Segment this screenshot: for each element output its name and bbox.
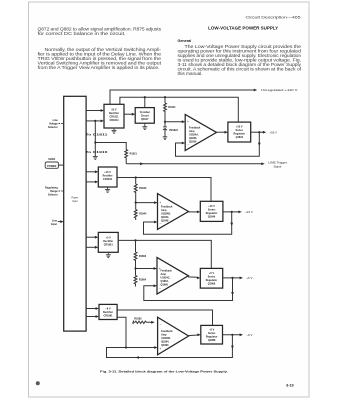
wire: -8 V rectifier lower output to + input junction xyxy=(117,317,126,347)
figure caption xyxy=(100,369,228,373)
svg-text:POWER: POWER xyxy=(47,165,57,168)
wire: LINE trigger signal xyxy=(126,162,265,165)
node: junction to R1921 branch xyxy=(94,141,96,143)
zener VR1822 xyxy=(163,122,179,137)
svg-text:Q1817: Q1817 xyxy=(141,118,149,121)
svg-text:Signal: Signal xyxy=(274,165,282,169)
svg-text:General: General xyxy=(178,39,192,43)
svg-text:+15 V: +15 V xyxy=(245,210,253,214)
svg-text:To C1910: To C1910 xyxy=(86,151,109,154)
label: Unregulated +110 V xyxy=(261,88,298,92)
svg-text:R1863: R1863 xyxy=(139,255,147,258)
svg-text:R1844: R1844 xyxy=(139,212,147,215)
node: R1821 bus junction xyxy=(164,96,166,98)
svg-text:R1843: R1843 xyxy=(139,187,147,190)
svg-text:S1801: S1801 xyxy=(48,158,56,161)
svg-text:VR1822: VR1822 xyxy=(169,129,179,132)
wire: +55 V feedback loop xyxy=(176,132,261,156)
wire: power input to +15 V rectifier (upper) xyxy=(86,170,98,173)
op-amp U1824B feedback amp +15 V xyxy=(158,194,189,230)
label: -8 V xyxy=(247,333,253,337)
node: R1863 tap junction xyxy=(134,239,136,241)
wire: divider junction to amp B + input xyxy=(136,201,158,204)
svg-text:LOW-VOLTAGE POWER SUPPLY: LOW-VOLTAGE POWER SUPPLY xyxy=(208,26,278,31)
svg-text:this manual.: this manual. xyxy=(178,71,203,76)
svg-text:Circuit Description—465: Circuit Description—465 xyxy=(246,16,301,20)
svg-text:Q1866: Q1866 xyxy=(161,284,169,287)
wire: branch to R1921 xyxy=(95,143,126,150)
svg-text:Selector: Selector xyxy=(48,126,58,129)
resistor R1921 xyxy=(125,150,138,164)
svg-text:Unregulated +110 V: Unregulated +110 V xyxy=(261,88,298,92)
crowbar circuit Q1817 xyxy=(135,108,154,124)
label: Regulating Range Selector xyxy=(45,187,58,197)
svg-text:+5 V: +5 V xyxy=(247,276,253,280)
wire: +15 V raw line to series regulator xyxy=(117,178,211,202)
wire: divider junction to amp C + input xyxy=(136,267,158,270)
label: Line Voltage Selector xyxy=(48,119,58,129)
wire: power input to +15 V rectifier (lower) xyxy=(86,181,98,184)
svg-text:Q1836: Q1836 xyxy=(189,140,197,143)
node: R1843 tap junction xyxy=(135,176,137,178)
ground under +15 V rectifier xyxy=(105,187,110,192)
+15 V rectifier CR1841 xyxy=(98,167,117,187)
svg-text:for correct DC balance in the: for correct DC balance in the circuit. xyxy=(38,31,126,36)
wire: power input to 55 V rectifier (upper) xyxy=(86,109,104,112)
node: +15 V output junction xyxy=(231,211,233,213)
svg-text:R1821: R1821 xyxy=(168,106,176,109)
svg-text:Input: Input xyxy=(72,200,78,203)
wire: +55 V output xyxy=(251,131,267,134)
page number 3-19 xyxy=(286,384,294,388)
wire: -8 V feedback loop xyxy=(107,335,234,359)
wire: amp A output to +55 V series regulator xyxy=(217,131,228,134)
wire: power input to +5 V rectifier (lower) xyxy=(86,246,98,249)
op-amp U1824C feedback amp +5 V xyxy=(157,258,188,295)
right column text xyxy=(178,16,303,77)
switch S1801 POWER xyxy=(45,158,58,168)
+5 V rectifier CR1861 xyxy=(98,232,118,252)
ground at tap bus bottom xyxy=(93,157,98,160)
ground under +5 V rectifier xyxy=(106,252,111,257)
ground under 55 V rectifier xyxy=(112,128,117,133)
node: junction on lower rectifier wire xyxy=(94,120,96,122)
label: +55 V xyxy=(270,130,278,134)
wire: power input to +5 V rectifier (upper) xyxy=(86,236,98,239)
resistor R1864 xyxy=(134,269,147,287)
55 V rectifier CR1811-CR1814 xyxy=(104,104,124,128)
svg-text:from the A Trigger View Amplif: from the A Trigger View Amplifier is app… xyxy=(38,65,160,70)
page footer mark xyxy=(36,381,40,385)
svg-text:Q1896: Q1896 xyxy=(161,344,169,347)
svg-text:R1864: R1864 xyxy=(139,278,147,281)
wire: power input to -8 V rectifier (lower) xyxy=(86,315,99,318)
svg-text:−: − xyxy=(159,286,161,290)
wire: amp C output to +5 V series regulator xyxy=(188,277,200,280)
node: R1821 / VR1822 junction xyxy=(164,121,166,123)
node: -8 V sense junction xyxy=(125,346,127,348)
wire: junction to amp A + input xyxy=(165,120,185,123)
svg-text:CR1881: CR1881 xyxy=(103,314,113,317)
op-amp U1824A feedback amp +55 V xyxy=(185,115,216,151)
svg-text:R1882: R1882 xyxy=(134,318,142,321)
svg-text:CR1814: CR1814 xyxy=(109,119,119,122)
ground under VR1822 xyxy=(163,137,168,140)
resistor R1863 xyxy=(134,240,147,268)
node: -8 V output junction xyxy=(231,334,233,336)
svg-text:−: − xyxy=(160,322,162,326)
node: crowbar bus junction xyxy=(144,96,146,98)
+15 V series regulator Q1846 xyxy=(200,201,223,221)
wire: line voltage selector to power input (dashed) xyxy=(59,123,64,125)
wire: tap bus below lower rectifier wire xyxy=(94,121,96,157)
label: Line input xyxy=(51,219,58,226)
svg-text:CR1861: CR1861 xyxy=(104,244,114,247)
label: +5 V xyxy=(247,276,253,280)
wire: POWER switch to power input xyxy=(58,164,63,166)
svg-text:+: + xyxy=(159,201,161,205)
wire: junction to amp D + input xyxy=(126,346,158,349)
svg-text:Q1868: Q1868 xyxy=(208,282,216,285)
svg-text:+: + xyxy=(159,347,161,351)
node: +5 V divider junction xyxy=(134,267,136,269)
wire: +5 V feedback loop xyxy=(144,278,234,301)
label: LINE Trigger Signal xyxy=(268,160,287,168)
ground under crowbar xyxy=(142,123,147,129)
svg-text:R1921: R1921 xyxy=(130,153,138,156)
label: To C1811 xyxy=(86,134,109,137)
+55 V series regulator Q1834 xyxy=(228,122,251,142)
svg-text:To C1811: To C1811 xyxy=(86,134,109,137)
power input block xyxy=(64,96,86,331)
node: +55 V output junction xyxy=(258,131,260,133)
resistor R1882 xyxy=(133,318,155,324)
wire: raw +55 V bus to series regulator xyxy=(120,97,238,122)
wire: 55 V rectifier to crowbar xyxy=(124,113,135,116)
resistor R1821 xyxy=(164,97,177,122)
label: To C1910 xyxy=(86,151,109,154)
wire: regulating range selector to power input (dashed) xyxy=(59,190,64,192)
wire: line input arrow into power input xyxy=(58,220,64,223)
svg-text:Q1888: Q1888 xyxy=(208,339,216,342)
wire: amp D output to -8 V series regulator xyxy=(188,333,201,336)
-8 V series regulator Q1888 xyxy=(201,325,223,344)
node: +15 V divider junction xyxy=(135,202,137,204)
svg-text:Fig. 3-11. Detailed block diag: Fig. 3-11. Detailed block diagram of the… xyxy=(100,369,228,373)
svg-text:Input: Input xyxy=(51,223,57,226)
+5 V series regulator Q1868 xyxy=(200,268,222,288)
svg-text:Q1834: Q1834 xyxy=(236,136,244,139)
wire: amp B output to +15 V series regulator xyxy=(189,211,201,214)
svg-text:CR1841: CR1841 xyxy=(103,178,113,181)
svg-text:−8 V: −8 V xyxy=(247,333,253,337)
resistor R1843 xyxy=(134,178,147,203)
svg-text:+: + xyxy=(187,120,189,124)
op-amp U1824D feedback amp -8 V xyxy=(158,317,189,355)
wire: power input to -8 V rectifier (upper) xyxy=(86,307,99,310)
wire: crowbar stub to bus xyxy=(144,97,146,107)
svg-text:−: − xyxy=(187,143,189,147)
label: +15 V xyxy=(245,210,253,214)
wire: +5 V raw line to series regulator xyxy=(118,240,211,268)
wire: +15 V feedback loop xyxy=(144,212,234,234)
wire: unregulated +110 V bus xyxy=(110,89,257,105)
svg-text:Selector: Selector xyxy=(48,194,58,197)
wire: +5 V output xyxy=(223,277,243,280)
wire: -8 V raw line to series regulator xyxy=(117,310,212,325)
resistor R1844 xyxy=(134,203,147,220)
node: +5 V output junction xyxy=(231,277,233,279)
wire: power input to 55 V rectifier (lower) xyxy=(86,120,104,123)
svg-text:3-19: 3-19 xyxy=(286,384,294,388)
svg-text:+55 V: +55 V xyxy=(270,130,278,134)
left column text xyxy=(38,27,163,70)
svg-text:Q1846: Q1846 xyxy=(208,215,216,218)
wire: -8 V output xyxy=(223,333,244,336)
-8 V rectifier CR1881 xyxy=(99,304,117,319)
svg-text:Q1848: Q1848 xyxy=(161,219,169,222)
wire: +15 V output xyxy=(223,211,242,214)
